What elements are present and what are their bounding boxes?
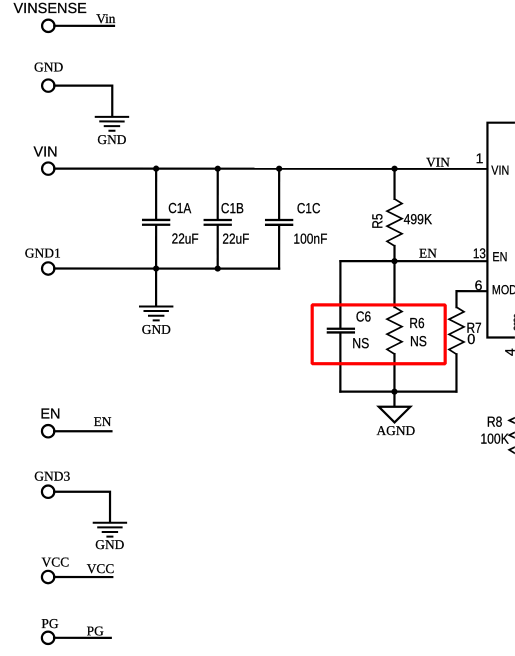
svg-text:EN: EN [419,246,437,261]
markup box (red) [312,305,445,364]
junction R5-R6 / EN rail [391,258,397,264]
resistor R5 [393,169,395,199]
connector GND [42,79,54,91]
svg-text:100K: 100K [480,432,509,448]
svg-text:1: 1 [476,150,484,166]
connector EN [42,425,54,437]
junction R6 / AGND rail [391,389,397,395]
connector VIN [42,162,54,174]
svg-text:VIN: VIN [33,145,57,161]
svg-text:GND: GND [34,60,64,75]
wire GND3 to ground [54,492,110,522]
ground symbol GND top [96,117,128,131]
svg-text:EN: EN [94,414,112,429]
svg-text:C1C: C1C [297,201,321,217]
ground symbol GND low [94,523,126,537]
wire VCC [54,576,112,578]
svg-text:NS: NS [410,334,427,350]
wire AGND rail [340,391,456,393]
wire Vin [54,25,114,27]
connector VINSENSE [42,20,54,32]
wire GND stem [155,269,157,307]
svg-text:GND: GND [142,322,171,337]
svg-text:R5: R5 [370,214,386,229]
ground symbol GND mid [140,306,172,320]
svg-text:R6: R6 [409,316,424,332]
svg-text:0: 0 [467,332,475,348]
resistor R7 and pin 6 wire [456,291,487,307]
junction C1C / VIN rail [276,166,282,172]
junction C1A / GND1 rail [153,265,159,271]
junction C1B / VIN rail [215,166,221,172]
svg-text:GND3: GND3 [34,469,70,484]
wire AGND stem [393,392,395,407]
svg-text:GND: GND [95,537,124,552]
svg-text:AGND: AGND [377,423,416,438]
connector PG [42,632,54,644]
junction R5 / VIN rail [391,166,397,172]
svg-text:499K: 499K [404,212,433,228]
resistor R6 [393,261,395,307]
svg-text:VINSENSE: VINSENSE [13,1,87,17]
svg-text:NS: NS [352,336,369,352]
svg-text:100nF: 100nF [293,232,327,248]
svg-text:GND: GND [97,132,126,147]
svg-text:PG: PG [41,616,59,631]
connector VCC [42,571,54,583]
svg-text:GND1: GND1 [25,246,61,261]
svg-text:C1A: C1A [168,201,191,217]
svg-text:VIN: VIN [491,163,509,178]
svg-text:EN: EN [492,249,507,264]
svg-text:VCC: VCC [42,555,70,570]
svg-text:VIN: VIN [426,155,450,170]
svg-text:6: 6 [475,277,483,293]
connector GND3 [42,486,54,498]
svg-text:4: 4 [502,348,515,356]
svg-text:EN: EN [40,407,60,423]
svg-text:22uF: 22uF [222,232,249,248]
IC U1 box [487,123,515,338]
svg-text:VCC: VCC [87,561,115,576]
junction C1A / VIN rail [153,166,159,172]
svg-text:PG: PG [87,623,104,638]
svg-text:13: 13 [473,245,486,261]
connector GND1 [42,262,54,274]
capacitor C1B [217,169,219,219]
wire GND1 rail [54,267,279,269]
capacitor C1A [155,169,157,219]
ground symbol AGND triangle [379,407,411,423]
junction C1B / GND1 rail [215,265,221,271]
svg-text:Vin: Vin [96,11,116,26]
svg-text:C1B: C1B [221,201,244,217]
svg-text:C6: C6 [356,310,371,326]
wire EN [54,430,111,432]
capacitor C6 branch [339,261,341,328]
svg-text:R8: R8 [487,415,503,431]
capacitor C1C [278,169,280,219]
svg-text:MOD: MOD [492,282,515,297]
svg-text:22uF: 22uF [172,232,199,248]
wire VIN rail [54,168,487,170]
wire EN rail [340,260,487,262]
resistor R8 (partial at edge) [509,408,515,454]
wire GND to ground [54,86,112,116]
wire PG [54,637,111,639]
